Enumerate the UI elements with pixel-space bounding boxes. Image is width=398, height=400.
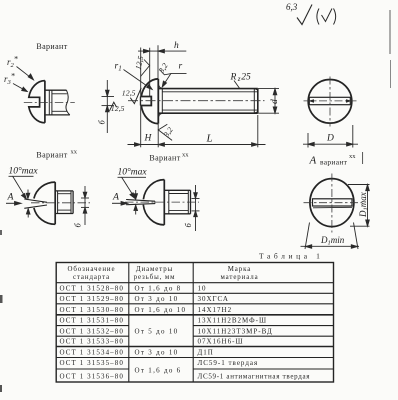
- svg-text:30ХГСА: 30ХГСА: [198, 295, 229, 303]
- dim d (right of shank): [258, 89, 279, 114]
- svg-text:ЛС59-1 антимагнитная твердая: ЛС59-1 антимагнитная твердая: [198, 373, 311, 381]
- variant-1 top shank: [45, 90, 70, 115]
- variant-1 top screw head: [29, 81, 45, 123]
- svg-text:ОСТ 1 31533–80: ОСТ 1 31533–80: [60, 338, 125, 346]
- svg-text:25: 25: [241, 73, 251, 83]
- svg-text:Таблица 1: Таблица 1: [259, 252, 323, 261]
- svg-text:10°max: 10°max: [118, 167, 148, 178]
- leader r2: [17, 67, 34, 80]
- variant-1 bottom centerline: [31, 202, 90, 204]
- svg-text:D1min: D1min: [320, 235, 345, 247]
- svg-text:10°max: 10°max: [9, 166, 39, 177]
- svg-text:материала: материала: [220, 274, 258, 281]
- svg-text:хх: хх: [71, 149, 78, 156]
- svg-text:d: d: [270, 99, 280, 104]
- svg-text:ОСТ 1 31528–80: ОСТ 1 31528–80: [60, 284, 125, 292]
- variant-2 head: [143, 180, 164, 225]
- svg-text:L: L: [206, 133, 213, 145]
- svg-text:ОСТ 1 31534–80: ОСТ 1 31534–80: [60, 349, 125, 357]
- svg-text:хх: хх: [182, 152, 189, 159]
- svg-text:б: б: [97, 120, 107, 125]
- svg-text:h: h: [174, 41, 179, 51]
- head circle: [308, 80, 352, 124]
- 3,2 bottom rotated with check: [161, 125, 175, 139]
- svg-text:Обозначение: Обозначение: [68, 266, 116, 273]
- svg-text:Марка: Марка: [228, 266, 251, 273]
- svg-text:r: r: [179, 62, 183, 72]
- svg-text:ОСТ 1 31536–80: ОСТ 1 31536–80: [60, 373, 125, 381]
- variant-1 slot wedge: [24, 199, 47, 208]
- svg-text:10: 10: [198, 284, 207, 292]
- svg-text:12,5: 12,5: [122, 88, 136, 97]
- svg-text:От 3 до 10: От 3 до 10: [135, 295, 179, 303]
- svg-text:От 3 до 10: От 3 до 10: [135, 349, 179, 357]
- svg-text:A: A: [309, 155, 317, 167]
- variant-1 bottom head: [34, 182, 55, 224]
- dim D below: [303, 125, 358, 148]
- svg-text:07Х16Н6-Ш: 07Х16Н6-Ш: [198, 338, 244, 346]
- main head dome: [140, 79, 158, 124]
- variant-1 dim b right: [81, 186, 89, 225]
- svg-text:ОСТ 1 31532–80: ОСТ 1 31532–80: [60, 327, 125, 335]
- page edge line top right: [389, 10, 391, 54]
- centerline arrowheads at circle: [308, 99, 314, 103]
- svg-text:10Х11Н23Т3МР-ВД: 10Х11Н23Т3МР-ВД: [198, 327, 273, 335]
- svg-text:Вариант: Вариант: [36, 42, 67, 51]
- variant-1 slot face small arrows: [26, 190, 30, 218]
- svg-text:б: б: [73, 223, 83, 228]
- svg-text:6,3: 6,3: [286, 2, 298, 12]
- svg-text:ОСТ 1 31529–80: ОСТ 1 31529–80: [60, 295, 125, 303]
- svg-text:резьбы, мм: резьбы, мм: [134, 274, 176, 281]
- svg-text:ОСТ 1 31531–80: ОСТ 1 31531–80: [60, 317, 125, 325]
- svg-text:От 1,6 до 6: От 1,6 до 6: [135, 367, 182, 375]
- variant-2 shank: [164, 190, 190, 214]
- svg-text:Вариант: Вариант: [36, 151, 67, 160]
- variant-2 slot channel: [126, 200, 155, 205]
- table header text: [68, 266, 259, 281]
- dim D1max (right vertical): [348, 185, 370, 227]
- svg-text:б: б: [183, 223, 193, 228]
- svg-text:A: A: [7, 192, 15, 203]
- main under-head fillets: [159, 85, 164, 89]
- svg-text:14Х17Н2: 14Х17Н2: [198, 306, 233, 314]
- table body column 1: [60, 284, 125, 380]
- dim h (top): [138, 49, 186, 53]
- svg-text:z: z: [237, 75, 241, 83]
- svg-text:R: R: [230, 73, 237, 83]
- variant-1 bottom shank: [55, 191, 73, 214]
- svg-text:Диаметры: Диаметры: [136, 266, 173, 273]
- table body column 3: [198, 284, 311, 380]
- svg-text:ЛС59-1 твердая: ЛС59-1 твердая: [198, 359, 259, 367]
- head base extension line up + 3,2 rotated: [157, 45, 159, 78]
- main shank: [158, 89, 257, 114]
- svg-text:H: H: [144, 134, 153, 144]
- dim b (slot width) left of main head: [102, 80, 115, 133]
- svg-text:ОСТ 1 31530–80: ОСТ 1 31530–80: [60, 306, 125, 314]
- roughness mark 6,3 top right: [297, 5, 312, 25]
- svg-text:Вариант: Вариант: [149, 154, 180, 163]
- svg-text:стандарта: стандарта: [73, 274, 110, 281]
- svg-text:13Х11Н2В2МФ-Ш: 13Х11Н2В2МФ-Ш: [198, 317, 268, 325]
- A-view slot bar: [313, 199, 353, 206]
- svg-text:D: D: [326, 134, 334, 144]
- table body column 2: [135, 284, 187, 374]
- main centerline: [128, 100, 265, 102]
- svg-text:хх: хх: [349, 153, 356, 160]
- bottom dimension line H and L: [128, 115, 266, 147]
- svg-text:От 5 до 10: От 5 до 10: [135, 327, 179, 335]
- roughness mark (v) in parentheses: [317, 9, 336, 25]
- leader r3: [13, 84, 27, 92]
- centerlines: [329, 77, 331, 127]
- table grid: [56, 263, 333, 383]
- extension lines H: [140, 48, 142, 148]
- label b rotated: [97, 120, 107, 125]
- slot bar: [309, 97, 350, 104]
- A-view circle: [310, 179, 354, 227]
- variant-2 dim b right: [192, 185, 200, 231]
- svg-text:A: A: [112, 192, 120, 203]
- svg-text:От 1,6 до 10: От 1,6 до 10: [135, 306, 187, 314]
- dim D1min (below): [301, 223, 360, 250]
- variant-1 top centerline: [24, 102, 75, 104]
- svg-text:От 1,6 до 8: От 1,6 до 8: [135, 284, 182, 292]
- svg-text:вариант: вариант: [320, 158, 348, 167]
- edge smudges left: [0, 230, 2, 235]
- svg-text:Д1П: Д1П: [198, 349, 214, 357]
- slot bottom extension line up + rotated 12,5: [149, 48, 151, 97]
- svg-text:ОСТ 1 31535–80: ОСТ 1 31535–80: [60, 359, 125, 367]
- variant-2 slot small arrows: [134, 190, 138, 215]
- svg-text:D1max: D1max: [358, 192, 370, 218]
- A-view centerlines: [331, 174, 333, 233]
- variant-2 centerline: [125, 201, 199, 203]
